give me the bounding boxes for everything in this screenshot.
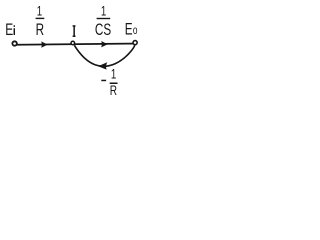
gain label 1/R denominator R xyxy=(36,21,44,39)
svg-text:CS: CS xyxy=(95,21,111,39)
arrowhead on feedback branch xyxy=(98,62,107,69)
svg-text:E: E xyxy=(125,21,133,39)
arrowhead on branch 1/CS xyxy=(101,41,108,47)
svg-text:R: R xyxy=(36,21,44,39)
svg-text:R: R xyxy=(110,82,117,97)
gain label 1/R fraction bar xyxy=(36,18,45,19)
label Ei xyxy=(5,21,13,39)
svg-text:1: 1 xyxy=(111,67,116,82)
svg-text:o: o xyxy=(133,25,138,38)
feedback gain label denominator R xyxy=(110,82,117,98)
node I middle node circle xyxy=(71,41,75,45)
arrowhead on branch 1/R xyxy=(41,41,48,47)
svg-text:E: E xyxy=(5,21,13,39)
gain label 1/CS numerator 1 xyxy=(101,4,106,19)
gain label 1/CS denominator CS xyxy=(95,21,111,39)
feedback gain label fraction bar xyxy=(110,83,118,85)
feedback gain label 1/R numerator 1 xyxy=(111,67,116,82)
gain label 1/R numerator 1 xyxy=(37,4,42,19)
wire main horizontal branch Ei to Eo xyxy=(17,44,134,45)
wire feedback arc Eo to I xyxy=(74,45,135,67)
feedback gain label minus sign xyxy=(101,80,106,82)
svg-text:1: 1 xyxy=(101,4,106,19)
node Eo output node circle xyxy=(133,41,137,45)
gain label 1/CS fraction bar xyxy=(97,18,111,19)
label Eo xyxy=(125,21,138,39)
label I (serif capital I) xyxy=(73,25,76,37)
node Ei input node circle xyxy=(12,41,16,45)
svg-text:1: 1 xyxy=(37,4,42,19)
